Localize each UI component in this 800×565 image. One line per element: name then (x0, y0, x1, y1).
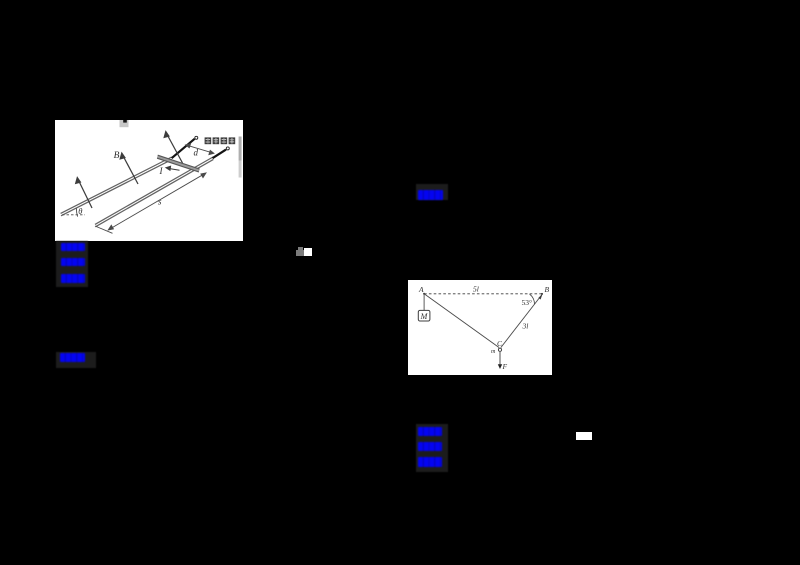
svg-text:B: B (114, 151, 120, 161)
svg-text:d: d (194, 148, 199, 158)
svg-text:5l: 5l (473, 285, 479, 294)
svg-text:m: m (491, 349, 496, 355)
svg-text:3l: 3l (522, 322, 529, 331)
svg-text:M: M (420, 312, 429, 321)
svg-text:θ: θ (78, 206, 82, 216)
svg-text:s: s (158, 197, 162, 207)
svg-text:F: F (502, 362, 508, 371)
svg-text:53°: 53° (522, 298, 533, 307)
svg-text:B: B (545, 285, 550, 294)
svg-text:A: A (418, 285, 424, 294)
